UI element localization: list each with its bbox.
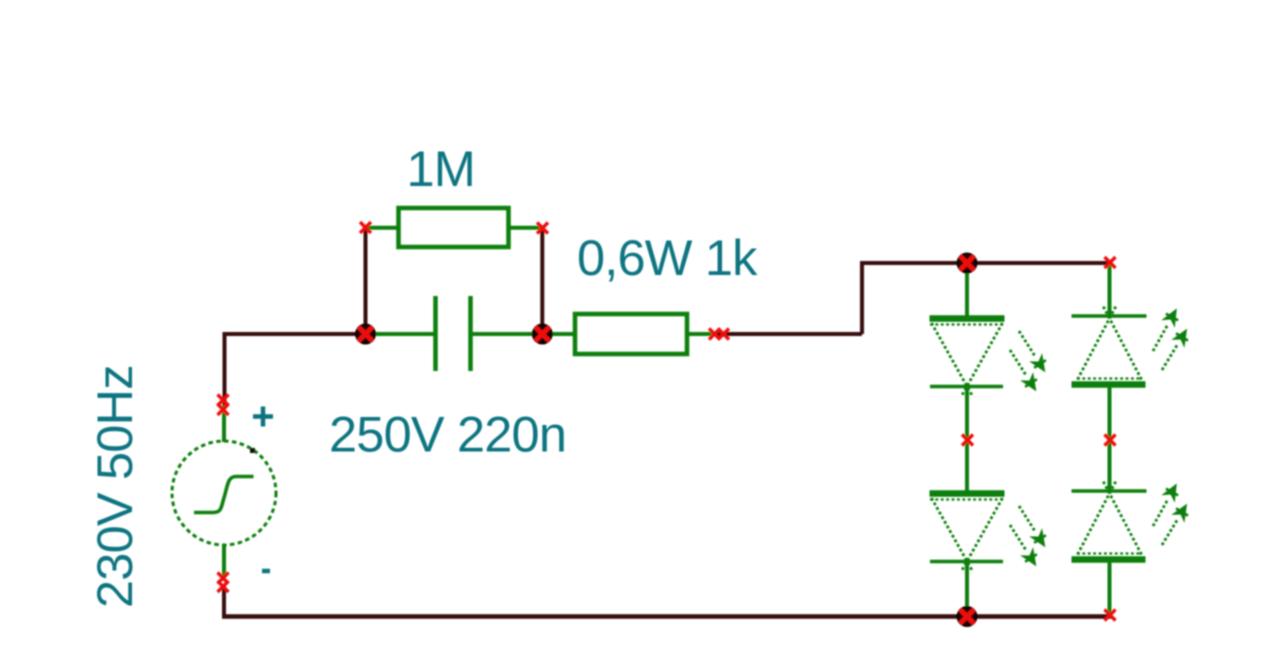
resistor R2 1k body — [575, 314, 687, 354]
svg-text:230V 50Hz: 230V 50Hz — [86, 365, 143, 608]
LED D1 arrows — [1010, 331, 1046, 390]
wire R2 to corner horizontal — [717, 332, 862, 336]
lead R1 right — [509, 226, 545, 230]
wire left vertical upper — [223, 332, 227, 405]
lead R2 right — [687, 332, 717, 336]
pin mark LED left mid — [962, 435, 973, 446]
wire 1M left vertical — [364, 228, 368, 334]
pin mark R1 left — [360, 222, 371, 233]
LED D2 arrows — [1010, 506, 1046, 565]
lead R1 left — [364, 226, 399, 230]
junction node A (1M-left / cap) — [355, 324, 376, 345]
pin mark V1 bottom b — [218, 581, 229, 592]
pin mark LED right bottom — [1105, 610, 1116, 621]
plus sign — [253, 407, 273, 427]
resistor R1 1M body — [399, 208, 509, 247]
junction node D (bottom rail / left LED branch) — [957, 606, 978, 627]
voltage source V1 circle — [172, 441, 276, 545]
capacitor C1 right plate — [468, 296, 473, 371]
pin mark LED right top — [1105, 257, 1116, 268]
LED D3 arrows — [1153, 310, 1188, 370]
voltage source waveform — [194, 477, 254, 513]
wire top rail — [860, 261, 1112, 265]
wire 1M right vertical — [540, 228, 544, 334]
voltage source glitch dot — [250, 448, 255, 453]
wire left vertical lower — [222, 586, 226, 618]
lead C1 right — [473, 332, 545, 336]
wire corner vertical — [860, 261, 864, 334]
svg-text:1M: 1M — [407, 140, 476, 197]
LED D2 (left bottom, pointing down) — [930, 494, 1005, 573]
pin mark V1 top a — [218, 395, 229, 406]
LED D4 (right bottom, pointing up) — [1072, 481, 1147, 560]
capacitor C1 left plate — [433, 296, 438, 371]
pin mark V1 top b — [218, 404, 229, 415]
lead V1 top — [222, 405, 226, 442]
pin mark V1 bottom a — [218, 573, 229, 584]
wire top-left horizontal — [223, 332, 367, 336]
junction node C (top rail / left LED branch) — [957, 253, 978, 274]
LED D1 (left top, pointing down) — [930, 319, 1005, 398]
wire bottom rail — [222, 614, 1112, 619]
svg-text:0,6W 1k: 0,6W 1k — [577, 229, 758, 286]
pin mark R2 right outer — [718, 329, 729, 340]
svg-text:250V 220n: 250V 220n — [329, 406, 566, 463]
pin mark R2 right inner — [709, 329, 720, 340]
lead V1 bottom — [222, 544, 226, 581]
minus sign — [262, 569, 270, 574]
LED branch right vertical leads — [1108, 263, 1112, 615]
lead C1 left — [364, 332, 434, 336]
LED D3 (right top, pointing up) — [1072, 306, 1147, 385]
pin mark R1 right — [537, 223, 548, 234]
LED D4 arrows — [1153, 485, 1188, 545]
LED branch left vertical leads — [965, 263, 969, 616]
pin mark LED right mid — [1105, 435, 1116, 446]
lead R2 left — [540, 332, 575, 336]
junction node B (1M-right / cap / R2) — [532, 324, 553, 345]
